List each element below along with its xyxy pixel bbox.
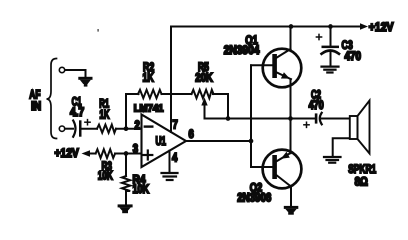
transistor Q2 2N3906 [263, 150, 302, 189]
capacitor C1 4.7 [73, 121, 75, 137]
svg-text:R1: R1 [99, 99, 109, 111]
wire jack to C1 [65, 128, 73, 130]
svg-text:8Ω: 8Ω [355, 177, 368, 189]
capacitor C2 470 [315, 113, 318, 123]
wire base drive vertical [250, 65, 252, 167]
wire op-amp output pin6 [186, 140, 251, 142]
svg-text:4.7: 4.7 [70, 107, 84, 119]
svg-text:10K: 10K [133, 184, 150, 196]
node AF IN brace [47, 59, 57, 139]
node output/base junction [249, 139, 254, 144]
svg-text:2N3906: 2N3906 [237, 193, 271, 205]
resistor R3 10K [96, 149, 116, 158]
ground (op-amp pin 4) [162, 173, 178, 180]
svg-text:3: 3 [133, 143, 138, 155]
svg-text:U1: U1 [156, 136, 167, 148]
wire Q1 emitter down to output node [290, 79, 292, 119]
wire R3 to op-amp pin 3 [115, 153, 141, 155]
node R5 wiper arrow [204, 103, 206, 119]
input jack top terminal [59, 67, 64, 72]
svg-text:470: 470 [309, 100, 324, 112]
node emitters/output junction [288, 116, 293, 121]
svg-text:+12V: +12V [369, 22, 394, 34]
node C3 on rail [328, 24, 333, 29]
transistor Q1 2N3904 [263, 49, 302, 88]
wire pin4 down [169, 151, 171, 172]
svg-text:IN: IN [31, 101, 41, 113]
wire R1 to op-amp pin 2 [116, 128, 142, 130]
svg-text:1K: 1K [99, 110, 110, 122]
svg-text:20K: 20K [195, 72, 213, 84]
wire Q2 base lead [251, 166, 272, 168]
svg-text:+12V: +12V [55, 148, 80, 160]
node junction R5 end / output line [226, 116, 231, 121]
svg-text:4: 4 [172, 153, 178, 165]
node Q1 collector on rail [289, 24, 294, 29]
wire Q2 emitter up to output node [290, 119, 292, 154]
resistor R4 10K (vertical) [125, 154, 127, 177]
ground (below R4) [118, 204, 133, 213]
wire +12V top rail [171, 26, 361, 28]
wire C1 to R1 [82, 128, 98, 130]
svg-text:SPKR1: SPKR1 [348, 164, 376, 176]
ground (below C3) [322, 67, 339, 73]
node pin2 junction [124, 126, 129, 131]
op-amp U1 LM741 [142, 115, 187, 168]
svg-text:AF: AF [29, 90, 40, 102]
wire R2 to R5 [162, 93, 192, 95]
ground (below Q2) [284, 206, 299, 215]
svg-text:1K: 1K [143, 72, 155, 84]
wire feedback vertical (pin2 node up) [126, 94, 139, 129]
node pin3 junction [124, 151, 129, 156]
speaker SPKR1 [350, 116, 358, 139]
wire Q1 base lead [251, 64, 272, 66]
wire jack top to ground [65, 70, 86, 77]
svg-text:2N3904: 2N3904 [224, 45, 260, 57]
svg-text:2: 2 [135, 120, 140, 132]
wire C2 to speaker [322, 118, 350, 120]
wire R5 right end down [213, 94, 228, 119]
wire +12V arrow feed (left) [82, 150, 91, 157]
ground (speaker return) [324, 157, 341, 163]
ground (chassis, input jack) [78, 77, 92, 87]
wire output node line to C2 [205, 118, 316, 120]
svg-text:10K: 10K [98, 170, 113, 182]
resistor R5 20K (pot) [192, 90, 214, 98]
svg-text:6: 6 [189, 129, 194, 141]
input jack bottom terminal [59, 126, 64, 131]
node arrow to +12V (top right) [360, 23, 368, 30]
svg-text:7: 7 [173, 120, 178, 132]
resistor R1 1K [97, 125, 116, 133]
capacitor C3 470 [330, 27, 332, 46]
svg-text:470: 470 [345, 51, 362, 63]
wire speaker bottom to ground [333, 138, 350, 156]
resistor R2 1K [138, 90, 162, 98]
wire pin7 vertical from rail down to op-amp top edge [170, 27, 172, 133]
scan speck [97, 29, 98, 32]
svg-text:LM741: LM741 [134, 104, 164, 115]
